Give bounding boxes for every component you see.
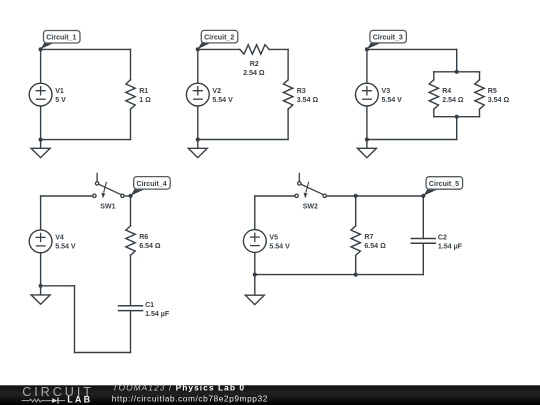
- node dot c4 gnd: [39, 284, 43, 288]
- resistor R1: [126, 80, 135, 109]
- wire bottom c5: [255, 274, 423, 276]
- wire left upper c4: [40, 196, 42, 230]
- wire R4 bottom stub: [433, 109, 435, 117]
- node dot c1 top: [39, 47, 43, 51]
- node dot c2 bottom: [196, 137, 200, 141]
- svg-text:V2: V2: [212, 88, 221, 95]
- wire left lower c1: [40, 106, 42, 140]
- svg-text:6.54 Ω: 6.54 Ω: [364, 243, 386, 250]
- voltage source V4: [29, 230, 52, 253]
- svg-text:1 Ω: 1 Ω: [139, 97, 151, 104]
- svg-text:3.54 Ω: 3.54 Ω: [488, 97, 510, 104]
- svg-text:R6: R6: [139, 234, 148, 241]
- svg-text:1.54 µF: 1.54 µF: [438, 244, 463, 251]
- capacitor C1: [119, 306, 143, 311]
- wire top-right c2: [269, 48, 288, 50]
- svg-text:5.54 V: 5.54 V: [212, 97, 233, 104]
- svg-text:V5: V5: [269, 234, 278, 241]
- svg-text:3.54 Ω: 3.54 Ω: [297, 97, 319, 104]
- wire R7 bottom c5: [355, 255, 357, 274]
- wire top-right c5: [326, 195, 423, 197]
- flag label Circuit_2: [198, 30, 238, 49]
- logo diode: [52, 398, 57, 403]
- voltage source V3: [356, 83, 379, 106]
- wire left upper c2: [197, 49, 199, 83]
- logo squiggle resistor: [22, 399, 65, 402]
- svg-text:LAB: LAB: [67, 394, 92, 404]
- wire left lower c5: [254, 252, 256, 274]
- node dot c5 R7 top: [354, 194, 358, 198]
- ground c5: [245, 275, 264, 305]
- svg-text:Circuit_4: Circuit_4: [137, 181, 167, 188]
- svg-text:V3: V3: [382, 88, 391, 95]
- resistor R2: [240, 45, 269, 54]
- wire top-left c5: [255, 195, 295, 197]
- svg-text:5 V: 5 V: [55, 97, 66, 104]
- resistor R6: [126, 226, 135, 255]
- svg-text:http://circuitlab.com/cb78e2p9: http://circuitlab.com/cb78e2p9mpp32: [112, 393, 268, 403]
- wire R4 top stub: [433, 72, 435, 80]
- resistor R7: [351, 226, 360, 255]
- wire R6 top c4: [130, 196, 132, 226]
- node dot c3 tbar top: [455, 70, 459, 74]
- wire top-left c2: [198, 48, 240, 50]
- svg-text:R5: R5: [488, 88, 497, 95]
- ground c3: [357, 140, 376, 158]
- wire bottom c4: [75, 352, 131, 354]
- node dot c5 gnd: [253, 273, 257, 277]
- svg-text:2.54 Ω: 2.54 Ω: [243, 70, 265, 77]
- flag label Circuit_1: [41, 31, 80, 50]
- wire tbar top c3: [434, 71, 480, 73]
- node dot c5 R7 bottom: [354, 273, 358, 277]
- svg-text:SW1: SW1: [100, 203, 115, 210]
- svg-text:V1: V1: [55, 88, 64, 95]
- flag label Circuit_5: [423, 177, 462, 196]
- svg-text:R7: R7: [364, 234, 373, 241]
- wire C2 top c5: [422, 196, 424, 239]
- wire R5 top stub: [479, 72, 481, 80]
- svg-text:1.54 µF: 1.54 µF: [145, 311, 170, 318]
- ground c2: [188, 140, 207, 158]
- svg-text:Circuit_3: Circuit_3: [373, 35, 403, 42]
- node dot c2 top: [196, 47, 200, 51]
- node dot c4 top: [129, 194, 133, 198]
- wire bottom c2: [198, 139, 288, 141]
- svg-text:SW2: SW2: [303, 203, 318, 210]
- flag label Circuit_4: [131, 177, 171, 196]
- svg-text:Circuit_5: Circuit_5: [429, 181, 459, 188]
- svg-text:R2: R2: [250, 61, 259, 68]
- resistor R3: [283, 80, 292, 109]
- flag label Circuit_3: [367, 30, 407, 49]
- resistor R5: [475, 80, 484, 109]
- svg-text:R4: R4: [442, 88, 451, 95]
- svg-text:5.54 V: 5.54 V: [55, 244, 76, 251]
- wire mid upper c3: [456, 49, 458, 71]
- svg-text:5.54 V: 5.54 V: [382, 97, 403, 104]
- wire tbar bottom c3: [434, 116, 480, 118]
- capacitor C2: [411, 239, 435, 244]
- wire left upper c1: [40, 49, 42, 83]
- svg-text:V4: V4: [55, 235, 64, 242]
- wire bottom c3: [367, 139, 457, 141]
- wire riser c4: [74, 286, 76, 353]
- ground c1: [31, 140, 50, 158]
- wire left lower c4: [40, 253, 42, 286]
- svg-text:2.54 Ω: 2.54 Ω: [442, 97, 464, 104]
- wire C2 bottom c5: [422, 243, 424, 274]
- svg-text:C2: C2: [438, 235, 447, 242]
- wire R5 bottom stub: [479, 109, 481, 117]
- wire right lower c1: [130, 109, 132, 139]
- svg-text:R1: R1: [139, 88, 148, 95]
- svg-text:Circuit_2: Circuit_2: [204, 35, 234, 42]
- svg-text:TOOMA123 / Physics Lab 0: TOOMA123 / Physics Lab 0: [113, 383, 246, 393]
- wire C1 bottom c4: [130, 311, 132, 353]
- node dot c3 top: [365, 47, 369, 51]
- wire mid lower c3: [456, 117, 458, 140]
- wire left upper c3: [366, 49, 368, 83]
- ground c4: [31, 286, 50, 305]
- svg-text:Circuit_1: Circuit_1: [46, 35, 76, 42]
- node dot c3 bottom: [365, 137, 369, 141]
- wire top c1: [41, 48, 131, 50]
- svg-text:5.54 V: 5.54 V: [269, 243, 290, 250]
- node dot c3 tbar bottom: [455, 115, 459, 119]
- wire right lower c2: [287, 109, 289, 139]
- wire left lower c3: [366, 106, 368, 140]
- node dot c1 bottom: [39, 138, 43, 142]
- wire left upper c5: [254, 196, 256, 230]
- wire left lower c2: [197, 106, 199, 140]
- voltage source V2: [186, 83, 209, 106]
- wire R6-C1 c4: [130, 255, 132, 305]
- wire top-right c4: [124, 195, 131, 197]
- wire right upper c2: [287, 49, 289, 79]
- wire top-left c4: [41, 195, 93, 197]
- wire top c3: [367, 48, 457, 50]
- switch SW1: [93, 173, 124, 198]
- wire R7 top c5: [355, 196, 357, 226]
- wire right upper c1: [130, 49, 132, 79]
- svg-text:C1: C1: [145, 302, 154, 309]
- voltage source V5: [243, 230, 266, 253]
- wire gnd rail c4: [41, 285, 75, 287]
- node dot c5 C2 top: [421, 194, 425, 198]
- switch SW2: [295, 173, 326, 198]
- resistor R4: [429, 80, 438, 109]
- wire bottom c1: [41, 139, 131, 141]
- svg-text:6.54 Ω: 6.54 Ω: [139, 243, 161, 250]
- voltage source V1: [29, 83, 52, 106]
- svg-text:R3: R3: [297, 88, 306, 95]
